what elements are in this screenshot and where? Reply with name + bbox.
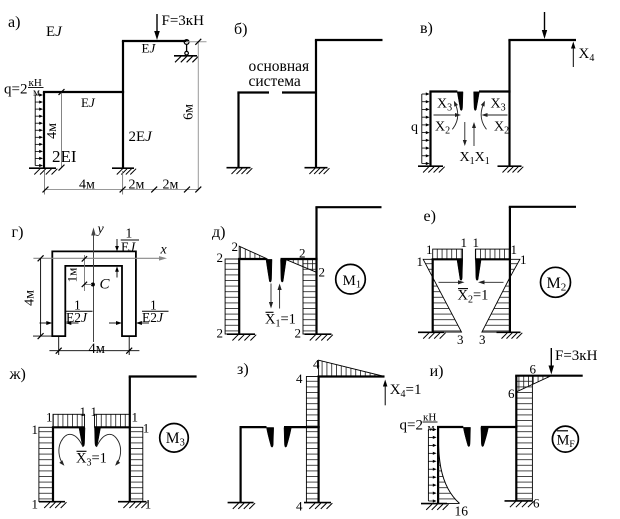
svg-text:6: 6: [533, 496, 540, 511]
centroid C g: [91, 283, 95, 287]
beam right stub e: [475, 258, 511, 260]
X1 arrow down v: [464, 122, 466, 142]
svg-text:4: 4: [296, 499, 303, 514]
beam right stub i: [481, 426, 518, 428]
q arrows i: [427, 430, 429, 502]
label X1=1 d: [266, 311, 274, 313]
svg-text:6: 6: [530, 362, 537, 377]
X2 arrow left e: [439, 281, 461, 283]
tall column v: [508, 40, 510, 166]
tall column e: [509, 207, 511, 332]
svg-text:1: 1: [426, 242, 433, 257]
left column z: [240, 427, 242, 503]
M3 rect right column zh: [130, 427, 143, 501]
beam left stub zh: [52, 426, 85, 428]
force F arrow i: [550, 348, 552, 369]
top beam e: [509, 206, 576, 208]
svg-text:1м: 1м: [65, 268, 80, 283]
bottom dimension line a: [44, 189, 198, 191]
beam left stub z: [240, 426, 267, 428]
fixed support left a: [29, 167, 56, 169]
force arrow top v: [544, 12, 546, 34]
fixed support left z: [228, 502, 254, 504]
fixed support right i: [505, 500, 533, 502]
svg-text:1: 1: [91, 404, 98, 419]
X4 arrow v: [572, 46, 574, 67]
svg-text:4м: 4м: [79, 177, 95, 192]
leg width arrows left g: [40, 322, 49, 324]
svg-text:2: 2: [319, 265, 326, 280]
M4 rect column z: [306, 377, 318, 503]
left column d: [238, 259, 240, 334]
svg-text:2м: 2м: [129, 177, 145, 192]
svg-text:1: 1: [461, 235, 468, 250]
cut wedge right v: [474, 92, 480, 111]
svg-text:y: y: [96, 222, 105, 237]
top beam z: [318, 375, 385, 377]
M4 triangle top beam z: [319, 360, 385, 376]
X3 moment arc right v: [481, 102, 486, 129]
roller support a: [184, 40, 189, 45]
svg-text:2EI: 2EI: [52, 147, 77, 166]
svg-text:6: 6: [508, 386, 515, 401]
svg-text:3: 3: [457, 332, 464, 347]
cut wedge left i: [463, 427, 470, 446]
svg-text:2: 2: [295, 326, 302, 341]
svg-text:ж): ж): [9, 366, 26, 383]
svg-text:1: 1: [473, 235, 480, 250]
MF triangle below top beam i: [516, 376, 551, 392]
svg-text:1: 1: [520, 252, 527, 267]
M2 lower triangle right column e: [482, 277, 510, 332]
X1 arrow down d: [270, 284, 272, 305]
svg-text:3: 3: [479, 332, 486, 347]
svg-text:1: 1: [143, 421, 150, 436]
svg-text:з): з): [237, 361, 249, 378]
svg-text:4м: 4м: [45, 123, 60, 139]
svg-text:м: м: [33, 87, 40, 99]
cut wedge right zh: [95, 428, 101, 447]
svg-text:1: 1: [417, 254, 424, 269]
svg-text:б): б): [234, 21, 247, 38]
svg-text:16: 16: [455, 504, 469, 519]
svg-text:а): а): [8, 14, 20, 31]
svg-text:система: система: [249, 73, 301, 90]
tall column b: [315, 40, 317, 168]
svg-text:C: C: [100, 277, 111, 293]
M3 circle: [160, 424, 189, 453]
left column zh: [52, 427, 54, 501]
M2 upper triangle right column e: [510, 259, 520, 277]
svg-text:X1=1: X1=1: [265, 312, 296, 330]
svg-text:2: 2: [217, 326, 224, 341]
svg-text:е): е): [424, 208, 436, 225]
svg-text:д): д): [212, 224, 225, 241]
svg-text:2: 2: [217, 250, 224, 265]
M3 rect above left beam zh: [53, 414, 85, 427]
tall column i: [515, 376, 517, 501]
svg-text:1: 1: [32, 497, 39, 512]
cut wedge left v: [457, 92, 463, 111]
svg-text:EJ: EJ: [81, 95, 96, 110]
cut wedge right i: [481, 427, 489, 446]
M1 triangle left beam d: [239, 246, 267, 259]
top beam d: [315, 206, 381, 208]
label X2=1 e: [458, 288, 468, 290]
M2 rect above right beam e: [475, 249, 510, 259]
cut wedge left zh: [79, 428, 85, 447]
svg-text:1: 1: [132, 410, 139, 425]
X2 arrow right e: [482, 281, 504, 283]
q arrows v: [421, 94, 423, 164]
svg-text:F=3кН: F=3кН: [555, 348, 598, 364]
svg-text:q=2: q=2: [4, 82, 27, 98]
X3 moment arc left v: [452, 102, 457, 129]
svg-text:1: 1: [126, 226, 133, 241]
dimension 4m vertical a: [61, 92, 63, 168]
svg-text:E2J: E2J: [142, 310, 164, 325]
cut wedge right z: [284, 428, 291, 448]
X1 arrow up v: [473, 126, 475, 146]
left column a: [43, 92, 45, 168]
svg-text:4м: 4м: [23, 290, 38, 306]
left column v: [429, 92, 431, 167]
svg-text:6м: 6м: [182, 104, 197, 120]
fixed support left b: [227, 167, 251, 169]
svg-text:x: x: [160, 243, 168, 258]
dimension 4m left g: [40, 258, 42, 336]
section outline g: [52, 251, 136, 336]
left column i: [437, 427, 439, 504]
svg-text:EJ: EJ: [121, 239, 136, 254]
tall column z: [318, 377, 320, 503]
beam left stub d: [238, 258, 266, 260]
X1 arrow up d: [279, 287, 281, 308]
M2 lower triangle left column e: [433, 277, 462, 332]
MF circle: [552, 426, 578, 452]
svg-text:X4=1: X4=1: [390, 382, 422, 400]
top beam i: [515, 375, 583, 377]
svg-text:г): г): [12, 224, 24, 241]
M1 rect diagram right column d: [303, 260, 317, 334]
beam right stub z: [284, 426, 320, 428]
beam right stub zh: [95, 426, 131, 428]
svg-text:EJ: EJ: [142, 41, 157, 56]
svg-text:1: 1: [80, 404, 87, 419]
top beam zh: [129, 375, 197, 377]
fixed support right zh: [118, 501, 146, 503]
svg-text:E2J: E2J: [66, 310, 88, 325]
fixed support left d: [227, 333, 255, 335]
fixed support middle a: [112, 167, 134, 169]
svg-text:1: 1: [46, 410, 53, 425]
beam left stub e: [432, 258, 463, 260]
leg width arrows right g: [109, 322, 118, 324]
svg-text:X2=1: X2=1: [458, 288, 489, 306]
fixed support right v: [498, 165, 522, 167]
x axis g: [33, 257, 162, 259]
fixed support right z: [304, 502, 331, 504]
tall column d: [315, 207, 317, 334]
svg-text:EJ: EJ: [46, 24, 63, 40]
X2 arrow left v: [434, 114, 458, 116]
svg-text:4: 4: [296, 371, 303, 386]
M2 rect above left beam e: [433, 249, 463, 259]
beam left stub v: [429, 90, 457, 92]
bottom dimension 4m g: [49, 350, 139, 352]
svg-text:2м: 2м: [163, 177, 179, 192]
X3 moment arc left zh: [59, 434, 83, 464]
label X3=1 zh: [77, 450, 87, 452]
M1 circle: [336, 264, 366, 294]
fixed support left e: [418, 331, 444, 333]
beam left stub b: [237, 91, 269, 93]
svg-text:q: q: [411, 120, 418, 135]
fixed support left zh: [39, 501, 65, 503]
force F arrow a: [156, 14, 158, 35]
svg-text:2: 2: [299, 246, 306, 261]
dimension 6m vertical a: [197, 41, 199, 190]
M1 rect diagram left column d: [225, 259, 239, 334]
fixed support right e: [497, 331, 521, 333]
fixed support left i: [421, 503, 447, 505]
top beam b: [315, 39, 383, 41]
fixed support right b: [305, 167, 328, 169]
cut wedge right e: [475, 260, 481, 281]
cut wedge left e: [457, 260, 463, 281]
cut wedge right d: [281, 259, 287, 282]
M1 triangle right beam d: [286, 260, 317, 273]
MF parabola base line i: [438, 502, 459, 504]
beam right stub d: [281, 258, 318, 260]
M2 circle: [541, 267, 571, 297]
fixed support right d: [305, 333, 332, 335]
svg-text:и): и): [430, 363, 444, 380]
svg-text:1: 1: [32, 422, 39, 437]
cut wedge left z: [267, 428, 274, 448]
X4=1 arrow z: [384, 384, 386, 406]
svg-text:2EJ: 2EJ: [129, 129, 154, 145]
svg-text:в): в): [420, 20, 433, 37]
svg-text:X3=1: X3=1: [76, 451, 107, 469]
X3 moment arc right zh: [97, 434, 121, 464]
beam right stub v: [479, 90, 511, 92]
svg-text:2: 2: [232, 239, 239, 254]
label 1/EJ with arrows g: [116, 239, 118, 248]
beam right stub b: [282, 91, 317, 93]
svg-text:F=3кН: F=3кН: [162, 13, 205, 29]
top beam a: [122, 40, 188, 42]
beam EJ a: [43, 91, 124, 93]
fixed support left v: [418, 165, 443, 167]
beam left stub i: [437, 426, 463, 428]
svg-text:4: 4: [313, 357, 320, 372]
left column e: [432, 259, 434, 332]
y axis g: [93, 232, 95, 342]
dimension 1m g: [84, 255, 86, 291]
middle column 2EJ a: [122, 41, 124, 168]
tall column zh: [129, 377, 131, 502]
svg-text:q=2: q=2: [400, 418, 423, 434]
M2 upper triangle left column e: [423, 259, 433, 277]
q arrows a: [34, 95, 36, 166]
M3 rect above right beam zh: [95, 414, 130, 427]
M3 rect left column zh: [39, 427, 53, 501]
svg-text:4м: 4м: [89, 341, 105, 357]
cut wedge left d: [266, 259, 272, 282]
MF rect column i: [516, 376, 532, 501]
svg-text:1: 1: [511, 242, 518, 257]
X2 arrow right v: [485, 114, 507, 116]
MF parabola diagram i: [438, 427, 459, 503]
left column b: [237, 93, 239, 168]
top beam v: [508, 39, 576, 41]
